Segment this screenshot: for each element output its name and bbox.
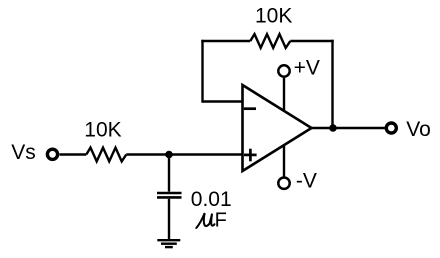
wire bbox=[60, 153, 87, 155]
node B (output/feedback junction) bbox=[329, 124, 337, 132]
wire feedback left vertical bbox=[201, 40, 203, 103]
terminal Vs bbox=[47, 149, 57, 159]
wire bbox=[168, 155, 170, 192]
wire inverting input bbox=[203, 100, 243, 102]
svg-text:-V: -V bbox=[296, 170, 317, 193]
wire feedback top right bbox=[290, 40, 333, 42]
wire +V lead bbox=[283, 78, 285, 111]
wire bbox=[126, 153, 242, 155]
svg-text:10K: 10K bbox=[255, 5, 292, 28]
svg-text:F: F bbox=[215, 210, 227, 232]
terminal +V bbox=[278, 65, 289, 76]
node A (input/cap junction) bbox=[165, 151, 173, 159]
wire bbox=[168, 199, 170, 240]
resistor R2 10K (feedback) bbox=[250, 34, 290, 48]
capacitor C1 bbox=[157, 193, 182, 197]
wire feedback top bbox=[201, 40, 250, 42]
svg-text:0.01: 0.01 bbox=[191, 188, 232, 211]
wire -V lead bbox=[283, 145, 285, 177]
op-amp U1 bbox=[243, 85, 312, 171]
svg-text:+V: +V bbox=[294, 56, 320, 79]
wire feedback right vertical bbox=[331, 40, 333, 128]
label µF bbox=[196, 213, 214, 228]
terminal Vo bbox=[386, 123, 396, 133]
terminal -V bbox=[278, 178, 289, 189]
resistor R1 10K (input) bbox=[86, 148, 126, 162]
svg-text:10K: 10K bbox=[84, 119, 121, 142]
ground bbox=[157, 240, 180, 247]
op-amp plus label bbox=[244, 149, 257, 162]
svg-text:Vs: Vs bbox=[11, 141, 36, 164]
wire output bbox=[311, 127, 386, 129]
svg-text:Vo: Vo bbox=[406, 118, 431, 141]
op-amp minus label bbox=[244, 107, 256, 110]
